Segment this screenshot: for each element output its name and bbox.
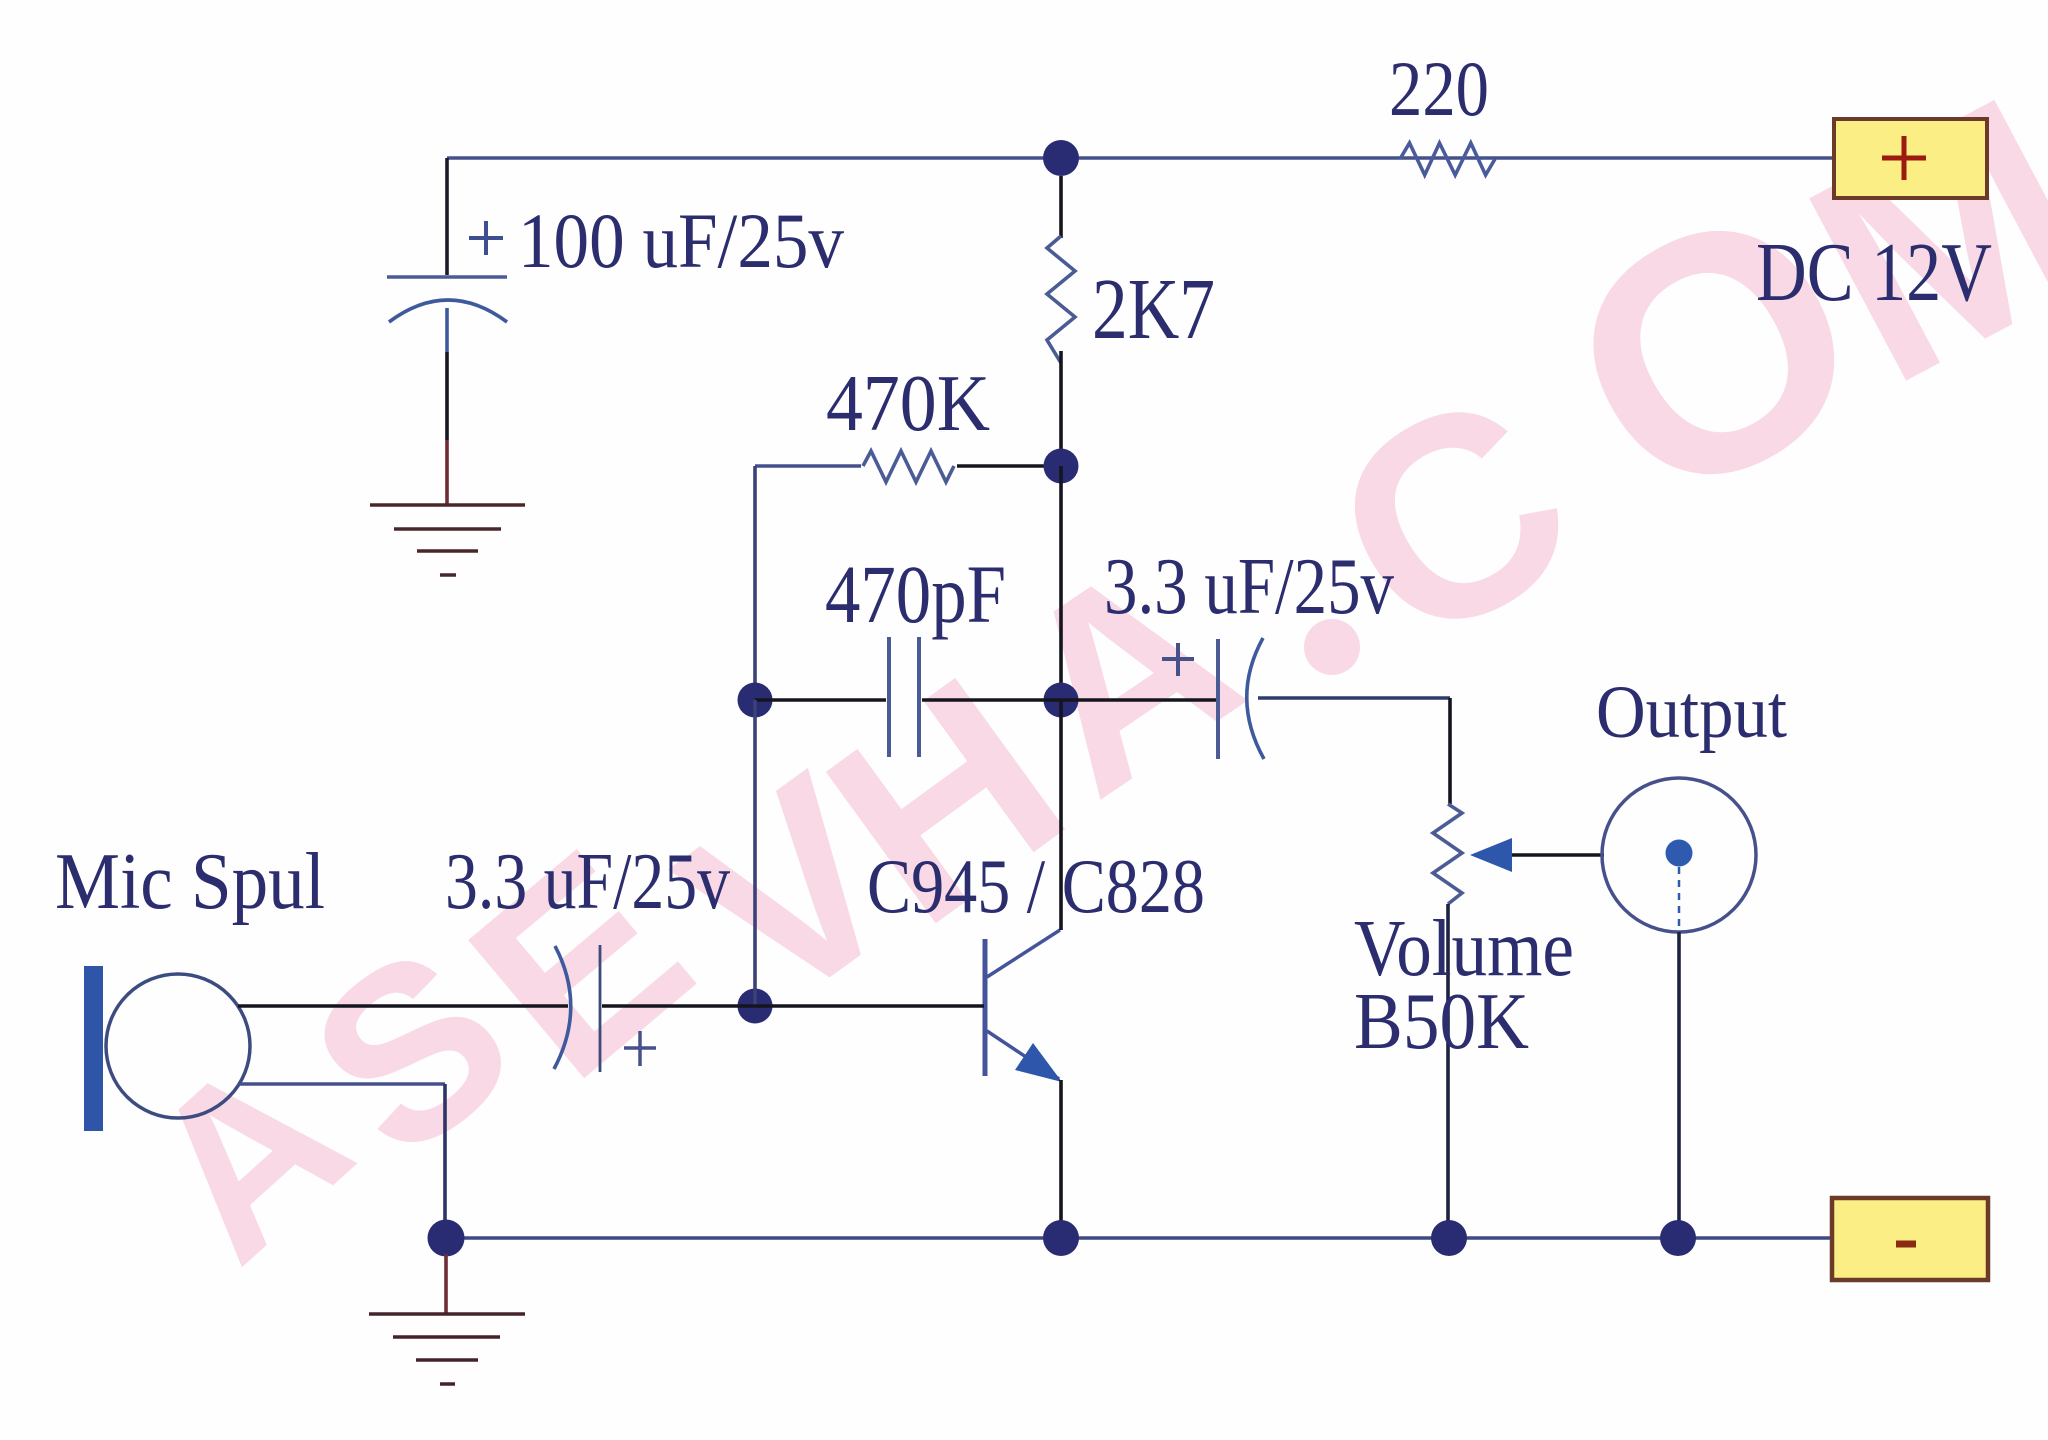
node C (feedback bottom) — [738, 683, 773, 718]
svg-text:470K: 470K — [826, 358, 990, 448]
node E (base junction) — [738, 989, 773, 1024]
wire to volume pot — [1448, 698, 1452, 804]
plus mark 100uF — [469, 221, 503, 255]
wire bottom rail — [446, 1236, 1832, 1240]
node D (collector junction) — [1044, 683, 1079, 718]
transistor Q1 C945/C828 — [985, 700, 1062, 1238]
capacitor 3.3uF/25v (output coupling) — [1061, 638, 1450, 759]
svg-text:C945 / C828: C945 / C828 — [867, 843, 1205, 929]
plus mark 3.3uF mic — [624, 1031, 656, 1066]
svg-text:470pF: 470pF — [825, 548, 1006, 640]
node G (emitter bottom) — [1043, 1220, 1079, 1256]
svg-text:B50K: B50K — [1354, 978, 1529, 1066]
node H (pot bottom) — [1431, 1220, 1467, 1256]
svg-text:2K7: 2K7 — [1092, 260, 1215, 357]
resistor 2K7 — [1047, 236, 1075, 363]
wire 2K7 to collector column — [1059, 466, 1063, 700]
output jack J1 — [1602, 778, 1756, 1238]
wire left drop — [445, 158, 449, 275]
microphone Mic Spul — [84, 966, 568, 1238]
node F (mic ground) — [428, 1220, 465, 1257]
capacitor C 100uF/25v — [387, 277, 507, 440]
node A (top rail / 2K7) — [1043, 140, 1079, 176]
svg-text:100 uF/25v: 100 uF/25v — [518, 197, 844, 284]
svg-text:220: 220 — [1389, 45, 1489, 132]
resistor R 220 — [1400, 143, 1495, 175]
wire feedback column to base — [753, 700, 757, 1006]
wire 2K7 top stub — [1059, 176, 1063, 238]
ground (bottom) — [369, 1314, 525, 1384]
wire wiper to output — [1512, 853, 1604, 857]
svg-text:Output: Output — [1596, 671, 1787, 754]
node I (output bottom) — [1660, 1220, 1696, 1256]
svg-text:3.3 uF/25v: 3.3 uF/25v — [1104, 543, 1394, 631]
node B (470K / 2K7 junction) — [1044, 449, 1079, 484]
wire top rail — [447, 156, 1834, 160]
capacitor 470pF — [755, 637, 1061, 757]
resistor 470K — [755, 451, 1061, 482]
ground (left) — [370, 505, 525, 575]
wire ground stub left — [445, 440, 449, 505]
battery terminal + DC12V — [1834, 119, 1987, 198]
capacitor 3.3uF/25v (mic coupling) — [554, 945, 755, 1072]
battery terminal minus — [1832, 1198, 1988, 1280]
wire base — [755, 1004, 984, 1008]
wire pot bottom — [1446, 904, 1450, 1238]
wire ground stub bottom — [444, 1254, 448, 1314]
potentiometer Volume B50K — [1433, 804, 1462, 904]
svg-text:Mic Spul: Mic Spul — [55, 838, 325, 926]
wire 2K7 bottom stub — [1059, 351, 1063, 466]
plus mark 3.3uF top — [1162, 643, 1194, 676]
svg-text:DC 12V: DC 12V — [1756, 226, 1992, 319]
svg-text:3.3 uF/25v: 3.3 uF/25v — [445, 838, 730, 926]
pot wiper arrow — [1470, 838, 1512, 872]
wire left feedback drop — [753, 466, 757, 700]
